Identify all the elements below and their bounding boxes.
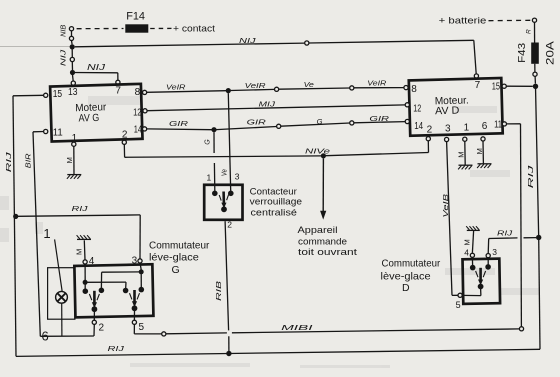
wire RIJ left vertical rail — [13, 95, 44, 356]
svg-text:1: 1 — [464, 123, 470, 134]
wire G (GIR junction down to contacteur pin 1) — [213, 132, 216, 191]
svg-text:3: 3 — [132, 255, 138, 266]
svg-text:Ve: Ve — [304, 80, 314, 89]
svg-text:commande: commande — [298, 236, 347, 247]
svg-text:MIBI: MIBI — [281, 323, 312, 332]
svg-text:lève-glace: lève-glace — [381, 270, 431, 282]
svg-text:NIVe: NIVe — [305, 147, 330, 156]
svg-text:VeIR: VeIR — [166, 83, 186, 92]
svg-text:20A: 20A — [544, 40, 556, 64]
svg-text:Ve: Ve — [222, 169, 229, 176]
svg-text:11: 11 — [494, 120, 502, 131]
svg-text:Appareil: Appareil — [298, 225, 338, 236]
device label Contacteur verrouillage centralise — [250, 186, 302, 218]
svg-text:GIR: GIR — [369, 114, 389, 123]
wire NIJ vertical segment — [70, 44, 76, 85]
contact dots and moving contact (contacteur) — [212, 191, 234, 213]
moving contact (Commutateur D) — [479, 268, 482, 281]
svg-text:D: D — [402, 282, 410, 294]
svg-text:verrouillage: verrouillage — [250, 196, 302, 207]
svg-text:BIR: BIR — [24, 153, 33, 168]
pin 1 terminal (AV G) — [72, 142, 76, 146]
svg-text:6: 6 — [482, 121, 488, 132]
pin 11 terminal (AV G) — [44, 129, 48, 133]
svg-text:2: 2 — [122, 129, 128, 140]
pin 14 terminal (AV G) — [143, 127, 147, 131]
svg-text:12: 12 — [413, 103, 421, 114]
device label Appareil commande toit ouvrant — [298, 225, 358, 258]
wire NIJ branch to Moteur AV G pin 7 — [73, 73, 121, 85]
svg-text:RIJ: RIJ — [4, 152, 13, 172]
svg-text:NIJ: NIJ — [87, 63, 107, 72]
switch G internal contacts — [83, 263, 145, 294]
fuse F14 — [125, 10, 148, 32]
svg-text:3: 3 — [445, 123, 451, 134]
switch Commutateur leve-glace G (box) — [74, 264, 153, 317]
svg-text:NIB: NIB — [61, 24, 68, 37]
wire NIVe (AV G pin 2 to AV D pin 2) — [124, 141, 428, 159]
svg-text:8: 8 — [135, 87, 141, 98]
switch D internal contacts — [470, 257, 491, 270]
svg-text:RIJ: RIJ — [526, 165, 535, 188]
svg-text:GIR: GIR — [169, 119, 189, 128]
svg-text:4: 4 — [464, 248, 469, 258]
svg-text:15: 15 — [492, 81, 501, 92]
svg-text:GIR: GIR — [247, 118, 267, 127]
ground M above Commutateur D pin 4 — [466, 226, 480, 252]
junction RIJ right rail to Commutateur D branch — [536, 235, 541, 240]
pin 5 terminal (Commutateur G) — [132, 311, 136, 325]
svg-text:8: 8 — [411, 84, 417, 95]
pin 15 terminal (AV D) — [502, 84, 506, 88]
svg-text:M: M — [475, 148, 484, 154]
svg-text:NIJ: NIJ — [239, 36, 256, 45]
arrow to Appareil commande toit ouvrant — [320, 158, 326, 219]
pin 3 terminal (AV D) — [445, 137, 449, 141]
svg-text:1: 1 — [207, 172, 212, 182]
svg-text:12: 12 — [133, 108, 142, 119]
svg-text:1: 1 — [43, 226, 50, 241]
wire MIBI (Commutateur G pin 5 to AV D pin 11 riser) — [134, 324, 519, 336]
pin 6 terminal (AV D) — [481, 137, 485, 141]
device label Commutateur leve-glace D — [381, 258, 441, 295]
svg-text:5: 5 — [139, 322, 145, 333]
pin 5 terminal (Commutateur D) — [458, 293, 462, 297]
svg-text:Commutateur: Commutateur — [149, 240, 210, 252]
svg-text:G: G — [317, 117, 323, 126]
lamp (interior light) with pins 1 and 6 — [42, 226, 68, 344]
wire pin 15 AV D to F43 junction — [506, 85, 532, 87]
motor Moteur AV G — [50, 84, 142, 142]
svg-text:3: 3 — [235, 172, 240, 182]
svg-text:2: 2 — [227, 219, 232, 229]
svg-text:6: 6 — [42, 329, 49, 344]
pin 2 terminal (AV G) — [122, 140, 126, 144]
svg-text:7: 7 — [115, 86, 121, 97]
svg-text:léve-glace: léve-glace — [149, 252, 199, 264]
pin 4 terminal (Commutateur G) — [83, 260, 87, 264]
svg-text:+ contact: + contact — [173, 24, 215, 35]
svg-text:R: R — [525, 29, 532, 34]
svg-text:M: M — [75, 249, 84, 255]
svg-text:G: G — [205, 139, 212, 145]
svg-text:5: 5 — [456, 300, 461, 310]
wire VeIR row (AV G pin 8 to AV D pin 8) — [147, 86, 404, 93]
svg-text:toit ouvrant: toit ouvrant — [298, 247, 357, 258]
pin 14 terminal (AV D) — [405, 119, 409, 123]
pin 2 terminal (AV D) — [426, 137, 430, 141]
wire pin 2 to BIR — [93, 324, 95, 336]
wire RIJ branch to Commutateur G pin 3 — [18, 215, 140, 259]
wire MIJ row (AV G pin 12 to AV D pin 12) — [147, 105, 405, 111]
pin 4 terminal (Commutateur D) — [470, 253, 474, 257]
wire BIR rail — [33, 132, 94, 337]
pin 1 terminal (AV D) — [463, 137, 467, 141]
ground M above Commutateur G pin 4 — [77, 235, 91, 260]
svg-text:VeIR: VeIR — [367, 79, 387, 88]
svg-text:MIJ: MIJ — [259, 99, 276, 108]
svg-text:RIJ: RIJ — [497, 229, 513, 238]
pin 12 terminal (AV D) — [405, 103, 409, 107]
ground M at Moteur AV D pin 1 — [458, 141, 472, 169]
supply + batterie (dashed feed) — [439, 16, 531, 27]
pin 3 terminal (Commutateur G) — [138, 259, 142, 263]
moving contact left (Commutateur G) — [93, 291, 96, 304]
ground M at Moteur AV G pin 1 — [67, 146, 81, 179]
supply + contact (dashed feed) — [77, 24, 216, 35]
ground M at Moteur AV D pin 6 — [477, 141, 491, 168]
moving contact right (Commutateur G) — [133, 290, 136, 303]
svg-text:13: 13 — [68, 87, 78, 98]
pin 3 terminal (Commutateur D) — [486, 254, 490, 258]
wire VeIB (AV D pin 3 down to Commutateur D pin 5) — [447, 142, 458, 296]
svg-text:M: M — [65, 157, 74, 163]
svg-text:F14: F14 — [126, 10, 145, 22]
svg-text:11: 11 — [53, 128, 63, 139]
svg-text:AV D: AV D — [435, 105, 460, 118]
switch Commutateur leve-glace D (box) — [463, 259, 501, 304]
junction RIB to bus — [226, 351, 231, 356]
device label Commutateur leve-glace G — [149, 240, 210, 276]
wire moving contact to pin 5 (Commutateur D) — [462, 289, 481, 296]
svg-text:VeIR: VeIR — [245, 81, 267, 90]
svg-text:M: M — [457, 151, 466, 157]
junction F43 to RIJ rail and pin 15 — [533, 84, 538, 89]
wire RIB (contacteur pin 2 down to bottom bus) — [225, 221, 229, 351]
pin 8 terminal (AV D) — [404, 86, 408, 90]
wire GIR row (AV G pin 14 to AV D pin 14) — [147, 121, 406, 133]
svg-text:RIJ: RIJ — [72, 204, 88, 213]
svg-text:15: 15 — [53, 89, 63, 100]
svg-text:2: 2 — [427, 125, 433, 136]
lamp enclosure box — [48, 268, 75, 320]
pin 15 terminal (AV G) — [44, 93, 48, 97]
svg-text:G: G — [172, 264, 180, 276]
pin 11 terminal (AV D) — [502, 122, 506, 126]
svg-text:VeIB: VeIB — [441, 194, 450, 218]
svg-text:F43: F43 — [517, 42, 528, 63]
svg-text:AV G: AV G — [78, 112, 99, 125]
svg-text:+ batterie: + batterie — [439, 16, 487, 27]
contactor Contacteur verrouillage centralise — [204, 185, 242, 220]
svg-text:RIB: RIB — [214, 281, 223, 301]
svg-text:M: M — [463, 239, 472, 245]
wire Ve (VeIR junction down to contacteur pin 3) — [228, 93, 230, 191]
svg-text:2: 2 — [99, 323, 105, 334]
svg-text:14: 14 — [414, 121, 423, 132]
svg-text:7: 7 — [475, 80, 481, 91]
wire RIJ branch to Commutateur D pin 3 — [488, 238, 536, 254]
svg-text:centralisé: centralisé — [251, 207, 297, 218]
pin 2 terminal (Commutateur G) — [92, 312, 96, 325]
pin 12 terminal (AV G) — [143, 109, 147, 113]
motor Moteur AV D — [409, 78, 503, 136]
fuse F43 20A — [531, 18, 539, 83]
node NIB connector — [69, 27, 73, 45]
wire RIJ bottom bus — [16, 86, 540, 356]
svg-text:Commutateur: Commutateur — [382, 258, 441, 270]
wire NIJ main run to Moteur AV D pin 7 — [75, 40, 479, 78]
svg-text:14: 14 — [134, 125, 143, 136]
pin 8 terminal (AV G) — [143, 90, 147, 94]
svg-text:4: 4 — [89, 256, 95, 267]
wire MIBI riser (AV D pin 11 down) — [507, 124, 524, 331]
svg-text:RIJ: RIJ — [108, 344, 125, 353]
svg-text:NIJ: NIJ — [59, 49, 68, 66]
svg-text:3: 3 — [492, 247, 497, 257]
